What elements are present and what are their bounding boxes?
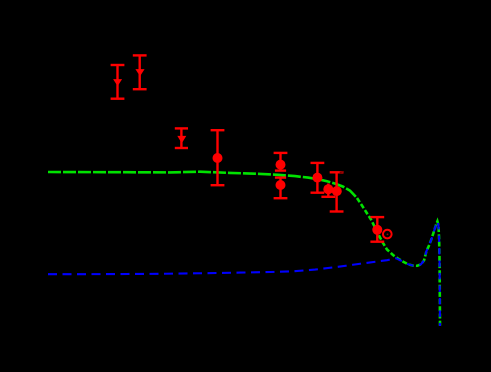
green model curve (steep descent + tail) bbox=[357, 198, 440, 326]
data point C5: filled circle with short error bar bbox=[321, 184, 335, 197]
blue model curve (merged tail over green) bbox=[396, 221, 440, 326]
data point C4: filled circle with error bar bbox=[311, 163, 325, 193]
faint dark-red tick near C6 top cap bbox=[339, 171, 343, 173]
open circle marker O1 bbox=[383, 230, 392, 239]
blue model curve (flat part) bbox=[48, 258, 396, 274]
data point C6: filled circle with error bar bbox=[330, 172, 344, 211]
data point C2: filled circle with error bar bbox=[274, 153, 288, 171]
small dot inside O1 bbox=[387, 234, 389, 236]
green model curve (flat part) bbox=[48, 172, 357, 198]
data point C3: filled circle with error bar bbox=[274, 178, 288, 199]
data point T1: upper-limit triangle with error bar bbox=[111, 65, 125, 99]
data point T3: small upper-limit triangle with error bar bbox=[175, 128, 188, 148]
data point C7: filled circle with error bar bbox=[370, 217, 384, 242]
data point T2: upper-limit triangle with error bar bbox=[133, 55, 147, 89]
data point C1: filled circle with error bar bbox=[211, 130, 225, 185]
